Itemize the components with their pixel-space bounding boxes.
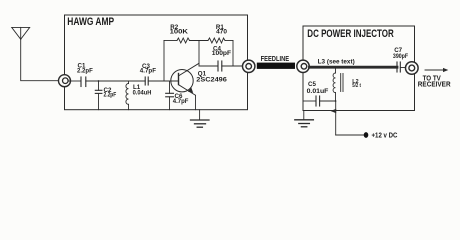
- transistor Q1: [171, 63, 199, 95]
- R1 output riser: [232, 41, 234, 67]
- resistor R2: [177, 38, 190, 43]
- arrow on box bottom edge: [331, 109, 337, 114]
- L3 thick feed-through line: [310, 66, 398, 69]
- inductor L2: [333, 67, 343, 101]
- DC POWER INJECTOR box: [303, 26, 415, 111]
- collector riser: [198, 41, 200, 67]
- inductor L1: [126, 81, 129, 110]
- +12V wire: [336, 134, 364, 136]
- capacitor C5: [303, 96, 336, 106]
- svg-text:390pF: 390pF: [393, 53, 408, 60]
- svg-text:DC POWER INJECTOR: DC POWER INJECTOR: [307, 28, 394, 40]
- svg-text:RECEIVER: RECEIVER: [418, 82, 451, 89]
- emitter riser: [195, 95, 197, 109]
- wire J1 to C1: [68, 80, 81, 82]
- svg-text:+12 v DC: +12 v DC: [372, 133, 398, 140]
- wire C3 to Q1 base: [148, 80, 178, 82]
- wire collector node to C4: [199, 65, 218, 67]
- label R2: [170, 24, 189, 36]
- arrow to TV: [425, 68, 448, 72]
- label C2: [104, 87, 117, 99]
- connector J4 (DC box right): [406, 62, 419, 75]
- label TO TV RECEIVER: [418, 75, 451, 88]
- +12V dot: [364, 132, 369, 138]
- +12V riser through box bottom: [335, 101, 337, 135]
- svg-text:HAWG AMP: HAWG AMP: [67, 16, 114, 28]
- svg-text:470: 470: [216, 29, 227, 36]
- svg-text:5/2 t: 5/2 t: [352, 83, 361, 89]
- capacitor C6: [166, 81, 174, 110]
- wire antenna to input connector: [21, 39, 59, 80]
- connector J3 (DC box left): [297, 60, 309, 72]
- junction L2/C5 node: [335, 100, 337, 102]
- antenna: [12, 27, 30, 39]
- capacitor C1: [81, 77, 86, 87]
- label C1: [77, 63, 93, 75]
- wire C1 to C3: [86, 80, 145, 82]
- capacitor C7: [397, 62, 406, 72]
- HAWG AMP box: [65, 15, 248, 110]
- label L2: [352, 79, 361, 89]
- resistor R1: [208, 38, 225, 43]
- ground (HAWG amp): [191, 110, 210, 128]
- label C3: [140, 63, 156, 75]
- wire C4 to output connector: [222, 65, 243, 67]
- capacitor C3: [145, 77, 148, 85]
- svg-text:4.7pF: 4.7pF: [173, 98, 189, 105]
- label C7: [393, 47, 408, 60]
- svg-text:4.7pF: 4.7pF: [140, 68, 156, 75]
- svg-text:2SC2496: 2SC2496: [196, 76, 227, 83]
- label Q1: [196, 70, 227, 83]
- label C5: [307, 81, 329, 95]
- svg-text:0.04uH: 0.04uH: [133, 89, 152, 96]
- capacitor C2: [95, 81, 102, 110]
- svg-text:2.2pF: 2.2pF: [77, 67, 93, 74]
- svg-text:0.01uF: 0.01uF: [307, 88, 329, 95]
- svg-text:100pF: 100pF: [212, 50, 232, 57]
- top rail left segment: [164, 40, 177, 42]
- svg-text:L3 (see text): L3 (see text): [318, 58, 355, 65]
- svg-text:2.2pF: 2.2pF: [104, 92, 117, 99]
- FEEDLINE bar: [257, 63, 295, 69]
- output connector J2: [243, 60, 255, 72]
- ground (DC box): [295, 111, 314, 127]
- node at C2 tap: [98, 80, 100, 82]
- label C6: [173, 93, 189, 105]
- input connector J1: [59, 75, 71, 87]
- top rail middle segment: [190, 40, 209, 42]
- top rail right segment: [225, 40, 233, 42]
- base riser to R2: [163, 41, 165, 82]
- svg-text:FEEDLINE: FEEDLINE: [261, 56, 290, 63]
- label R1: [216, 24, 228, 36]
- label C4: [212, 45, 232, 57]
- capacitor C4: [218, 61, 222, 71]
- svg-text:100K: 100K: [170, 29, 189, 36]
- label L1: [133, 84, 152, 96]
